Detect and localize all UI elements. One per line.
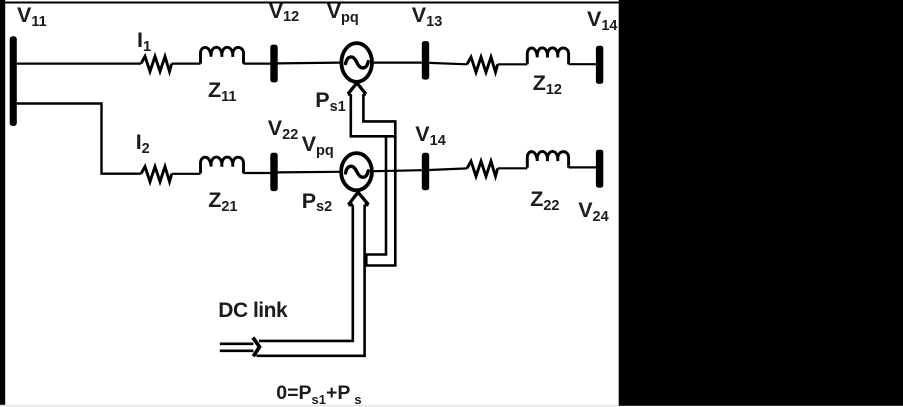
equation 0=Ps1+Ps: [276, 384, 361, 404]
node V24 label: [578, 200, 608, 222]
DC link label: [218, 300, 287, 321]
impedance Z22 label: [530, 189, 559, 211]
inductor L3 (Z21 coil): [201, 157, 244, 173]
wire: [172, 173, 201, 175]
bus V11 (left main bus): [10, 36, 17, 126]
inductor L1 (Z11 coil): [201, 47, 244, 63]
DC link feed line upper: [220, 342, 254, 345]
node V14 label (top right): [587, 9, 617, 31]
current I1 label: [137, 30, 151, 52]
wire: [172, 62, 201, 64]
wire: [429, 63, 467, 64]
wire: [244, 172, 271, 174]
node V14 label (line 2 mid): [415, 124, 445, 146]
arrow shaft Ps2 right / DC-link bottom line: [257, 205, 365, 356]
bus V22: [270, 153, 277, 191]
sine wave U1: [346, 57, 369, 68]
arrow shaft Ps1 inner riser: [366, 136, 386, 265]
DC link chevron arrowhead: [253, 338, 260, 357]
bus V14 (line 2 mid): [422, 153, 429, 190]
resistor R1 (line 1 series R): [141, 56, 172, 71]
inductor L2 (Z12 coil): [527, 48, 568, 64]
wire: [374, 61, 422, 63]
wire: [498, 63, 528, 65]
wire: [429, 168, 467, 170]
node Vpq label (line 1): [327, 1, 359, 23]
left border: [0, 0, 5, 405]
black mask region right: [619, 0, 903, 406]
node Vpq label (line 2): [302, 134, 334, 156]
AC source U1 (series voltage source Vpq line 1): [341, 43, 372, 82]
AC source U2 (series voltage source Vpq line 2): [341, 153, 372, 190]
bottom faint border: [0, 405, 620, 406]
node V12 label: [269, 1, 299, 23]
power Ps2 label: [302, 191, 332, 213]
wire: [569, 166, 596, 168]
bus V24: [596, 150, 603, 188]
node V11 label: [17, 5, 47, 27]
arrow shaft Ps1 inner: [363, 94, 395, 265]
arrow shaft Ps1 outer: [351, 94, 397, 136]
bus V13: [422, 41, 429, 80]
resistor R2 (line 1 right R): [467, 57, 498, 72]
impedance Z12 label: [533, 73, 562, 95]
impedance Z21 label: [208, 190, 237, 212]
current I2 label: [136, 132, 150, 154]
power Ps1 label: [315, 90, 345, 112]
impedance Z11 label: [208, 80, 236, 102]
arrowhead into U1 (Ps1 injection): [348, 83, 366, 94]
node V22 label: [268, 118, 298, 140]
inductor L4 (Z22 coil): [527, 151, 568, 167]
DC link feed line lower: [220, 349, 254, 352]
wire: [278, 61, 341, 64]
wire: [569, 63, 596, 65]
arrow shaft Ps2 left / DC-link top line: [259, 205, 353, 341]
resistor R3 (line 2 series R): [141, 167, 172, 182]
arrowhead into U2 (Ps2 injection): [348, 192, 368, 205]
top border: [0, 2, 903, 4]
wire (crosses DC-link risers): [374, 170, 422, 171]
wire (bus V11 to line 2 drop): [17, 104, 141, 174]
wire: [244, 62, 271, 64]
node V13 label: [412, 5, 442, 27]
wire: [498, 167, 528, 169]
wire: [17, 62, 141, 64]
bus V12: [270, 45, 277, 83]
wire: [278, 171, 341, 174]
resistor R4 (line 2 right R): [467, 161, 498, 176]
sine wave U2: [346, 166, 369, 177]
bus V14 (top right): [596, 46, 603, 84]
